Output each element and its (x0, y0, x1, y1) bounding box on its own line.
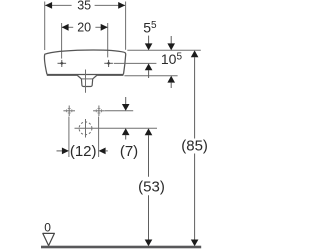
dimension 35 arrow left (45, 2, 52, 9)
dimension 35 arrow right (118, 2, 125, 9)
zero level triangle (43, 233, 55, 245)
dimension (53) line lower part with arrow (148, 195, 150, 240)
plan tap hole crosshair left (63, 106, 75, 117)
tap hole cross left (front view) (58, 60, 67, 67)
plan drain dashed circle (79, 122, 92, 135)
basin outline (front view) (44, 50, 125, 75)
plan tap hole crosshair right (93, 106, 105, 117)
drain trap cup (78, 76, 97, 87)
svg-text:105: 105 (161, 51, 183, 67)
dimension 20 arrow left (62, 24, 69, 31)
plan tap hole level line (105, 110, 133, 112)
dimension 5.5 lower arrow (145, 64, 153, 71)
dimension 20 arrow right (101, 24, 108, 31)
plan drain level line (75, 127, 158, 129)
plan drain axis vertical (85, 119, 87, 138)
svg-text:0: 0 (44, 220, 51, 234)
dimension 5.5 upper arrow (148, 36, 150, 44)
dimension 20 extension line left (61, 23, 63, 59)
dimension (7) lower arrow (122, 128, 130, 135)
dimension 20 line (62, 26, 74, 28)
drain trap inner line (82, 78, 93, 80)
dimension 10.5 upper arrow (170, 36, 172, 44)
basin bottom level extension line (124, 75, 177, 77)
svg-text:(53): (53) (138, 178, 165, 195)
svg-text:35: 35 (77, 0, 91, 13)
dimension 20 extension line right (107, 23, 109, 57)
dimension 35 extension line left (44, 2, 46, 51)
drain axis line (85, 70, 87, 93)
tap hole cross right (front view) (104, 60, 113, 67)
ground line (41, 246, 201, 249)
svg-text:(12): (12) (70, 143, 97, 160)
dimension (12) extension line right (98, 117, 100, 158)
dimension (7) upper arrow (125, 97, 127, 105)
tap hole level extension line (114, 62, 157, 64)
dimension (12) right arrow (99, 148, 106, 155)
dimension (12) extension line left (68, 117, 70, 158)
svg-text:(7): (7) (120, 143, 138, 160)
svg-text:55: 55 (143, 19, 157, 35)
basin bottom edge (47, 74, 78, 76)
dimension (53) line upper part with arrow (145, 128, 153, 135)
dimension (12) left arrow (57, 150, 64, 152)
svg-text:(85): (85) (181, 138, 208, 155)
dimension 35 line (45, 4, 72, 6)
dimension 35 extension line right (125, 2, 127, 50)
dimension 10.5 lower arrow (167, 76, 175, 83)
dimension (85) line upper part with arrow (191, 50, 199, 57)
rim level extension line (127, 49, 201, 51)
dimension (85) line lower part with arrow (194, 154, 196, 241)
svg-text:20: 20 (77, 21, 91, 35)
